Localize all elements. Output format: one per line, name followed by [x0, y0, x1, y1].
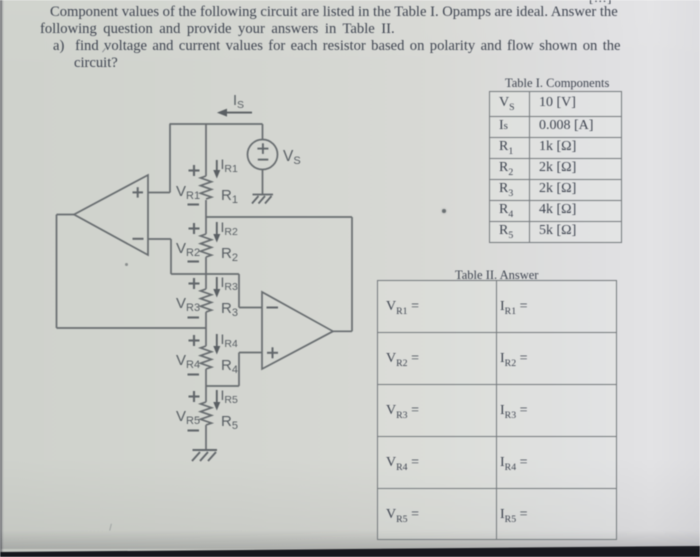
resistor R4 zigzag	[201, 346, 212, 369]
svg-text:R4: R4	[221, 357, 238, 376]
wire: vertical up to U2 + input	[238, 353, 240, 387]
wire: R1 to node A	[205, 200, 207, 234]
faint smudge bottom-left	[109, 524, 115, 532]
voltage source Vs polarity and label	[257, 143, 268, 159]
wire: node A horizontal (between R1 and R2)	[206, 216, 352, 218]
svg-text:IR4: IR4	[221, 331, 238, 350]
resistor R5 zigzag	[201, 402, 212, 425]
resistor R5 labels	[176, 387, 238, 432]
current arrow IR1	[216, 160, 218, 171]
svg-text:VR1: VR1	[176, 183, 200, 202]
wire: U1 - input vertical to node B	[170, 239, 172, 274]
svg-text:VR4: VR4	[176, 352, 200, 371]
Table II	[377, 280, 617, 540]
wire: R3 to node C	[205, 312, 207, 346]
resistor R2 zigzag	[201, 234, 212, 257]
current arrow IR5	[216, 390, 218, 403]
Table II title	[455, 268, 538, 283]
wire: left vertical from top node down to U1 + input	[169, 124, 171, 193]
svg-text:R5: R5	[221, 413, 238, 432]
svg-text:VR2: VR2	[176, 240, 200, 259]
dead pixel dot	[442, 209, 446, 213]
resistor R3 zigzag	[201, 289, 212, 312]
wire: U1 + input	[148, 192, 170, 194]
voltage source Vs circle	[248, 140, 278, 170]
wire: U2 - input	[239, 307, 262, 309]
wire: U2 + input	[239, 352, 262, 354]
svg-text:R1: R1	[221, 187, 238, 206]
current arrow Is	[217, 93, 252, 117]
top-right clipped fragment	[589, 0, 612, 6]
small photo artifact above circuit?	[102, 48, 109, 55]
wire: node B horizontal (between R2 and R3)	[171, 273, 239, 275]
svg-text:R3: R3	[221, 300, 238, 319]
op-amp U1 (left, output to the left)	[74, 175, 148, 255]
wire: U1 output vertical	[56, 215, 58, 329]
wire: top node horizontal	[170, 123, 263, 125]
current arrow IR2	[216, 222, 218, 235]
wire: R4 to node D	[205, 369, 207, 402]
left dark screen edge	[0, 0, 5, 557]
resistor R1 labels	[176, 156, 238, 206]
svg-text:IR2: IR2	[221, 219, 238, 238]
svg-text:IS: IS	[233, 93, 244, 111]
Table I	[489, 91, 622, 243]
wire: Vs bottom lead	[262, 170, 264, 195]
wire: R2 to node B	[205, 257, 207, 289]
wire: U1 - input	[148, 238, 171, 240]
wire: U2 output	[333, 330, 352, 332]
resistor R2 labels	[176, 219, 238, 264]
wire: U1 output	[57, 214, 75, 216]
Table I title	[505, 76, 609, 91]
wire: vertical down to U2 - input	[238, 274, 240, 308]
resistor R3 labels	[176, 274, 238, 319]
svg-text:VR5: VR5	[176, 408, 200, 427]
svg-text:VR3: VR3	[176, 295, 200, 314]
svg-text:IR3: IR3	[221, 274, 238, 293]
svg-text:R2: R2	[221, 245, 238, 264]
op-amp U2 input polarity	[267, 308, 279, 359]
current arrow IR3	[216, 277, 218, 290]
resistor R4 labels	[176, 331, 238, 376]
op-amp U1 input polarity	[133, 187, 144, 239]
small dust dot	[125, 263, 128, 266]
wire: node D horizontal (between R4 and R5)	[206, 385, 239, 387]
svg-text:VS: VS	[283, 148, 301, 167]
op-amp U2 (right)	[262, 292, 333, 369]
wire: chain top to R1	[205, 124, 207, 176]
wire: Vs top lead	[262, 124, 264, 140]
wire: right feedback vertical	[351, 217, 353, 331]
ground (below R5)	[192, 450, 217, 461]
problem statement text	[50, 4, 618, 21]
bottom dark bezel strip	[0, 546, 700, 557]
svg-text:IR5: IR5	[221, 387, 238, 406]
current arrow IR4	[216, 334, 218, 347]
ground (below Vs)	[252, 195, 273, 204]
wire: R5 to ground	[205, 425, 207, 450]
svg-text:IR1: IR1	[221, 156, 238, 175]
wire: node C horizontal (between R3 and R4)	[57, 327, 207, 329]
resistor R1 zigzag	[201, 176, 212, 199]
